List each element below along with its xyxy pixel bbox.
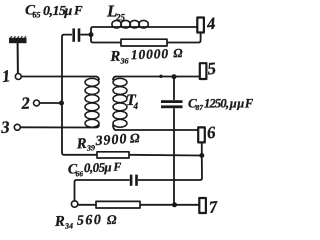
wire bottom rail to terminal 7 — [78, 204, 199, 206]
junction node C65 output — [89, 32, 94, 37]
junction node C87 tap — [172, 74, 177, 79]
junction node terminal 2 — [59, 101, 64, 106]
svg-text:2: 2 — [20, 93, 31, 113]
svg-text:25: 25 — [115, 13, 126, 23]
junction node under terminal 6 — [199, 153, 204, 158]
svg-text:36: 36 — [119, 56, 128, 65]
svg-text:Ω: Ω — [107, 212, 118, 227]
terminal 4 — [197, 18, 204, 33]
terminal 1 — [15, 74, 21, 80]
wire T4 secondary top to terminal 5 — [115, 76, 200, 78]
svg-text:μ: μ — [103, 159, 112, 174]
svg-text:34: 34 — [64, 221, 73, 230]
svg-text:0,05: 0,05 — [84, 160, 106, 176]
wire junction up to L25 — [91, 27, 112, 35]
label C66 0,05uF — [68, 159, 122, 178]
terminal 7 — [199, 198, 206, 213]
capacitor C66 — [130, 175, 138, 186]
capacitor C65 — [72, 28, 91, 41]
inductor L25 — [112, 20, 149, 28]
label C87 1250 uuF — [188, 96, 254, 113]
wire T4 secondary bottom to terminal 6 — [115, 129, 198, 131]
junction node on terminal 7 wire — [172, 202, 177, 207]
svg-text:5: 5 — [206, 59, 217, 79]
label R39 3900 ohm — [75, 130, 141, 153]
svg-text:F: F — [112, 160, 121, 174]
wire R39 to junction under terminal 6 — [129, 154, 202, 157]
open terminal (C66 return) — [71, 201, 77, 207]
wire terminal 3 to T4 primary bottom — [21, 126, 97, 128]
svg-text:1250: 1250 — [204, 97, 227, 111]
terminal 3 — [14, 124, 20, 130]
label T4 — [126, 92, 139, 111]
wire C66 left lead — [75, 180, 130, 202]
label C65 0,15uF — [25, 3, 83, 20]
transformer T4 primary winding — [85, 77, 99, 128]
wire terminal 6 stub down — [201, 143, 203, 156]
wire terminal 2 to bus — [40, 102, 62, 104]
label L25 — [106, 2, 126, 23]
wire L25 to terminal 4 — [149, 26, 197, 28]
svg-text:R: R — [54, 214, 66, 230]
wire C87 bottom to terminal 7 net — [173, 108, 175, 205]
svg-text:39: 39 — [86, 143, 96, 153]
transformer T4 secondary winding — [113, 77, 127, 131]
resistor R34 — [96, 201, 140, 208]
svg-text:4: 4 — [133, 101, 139, 111]
terminal 5 — [200, 63, 207, 79]
svg-text:R: R — [109, 49, 121, 65]
label R36 10000 ohm — [109, 45, 184, 66]
capacitor C87 — [161, 77, 183, 109]
svg-text:F: F — [73, 3, 83, 18]
svg-text:3900: 3900 — [94, 132, 128, 149]
svg-text:66: 66 — [75, 169, 83, 178]
wire junction down to R36 — [91, 35, 121, 43]
wire C66 right lead up to terminal 6 junction — [138, 158, 202, 180]
svg-text:Ω: Ω — [129, 130, 140, 146]
terminal 2 — [34, 100, 40, 106]
svg-text:1: 1 — [1, 66, 11, 86]
wire R36 to terminal 4 — [167, 33, 201, 43]
svg-text:R: R — [75, 136, 87, 153]
svg-text:7: 7 — [208, 197, 220, 217]
svg-text:10000: 10000 — [131, 46, 170, 62]
svg-text:3: 3 — [0, 117, 11, 137]
label R34 560 ohm — [54, 212, 118, 231]
resistor R36 — [121, 39, 167, 46]
wire left bus (C65 / terminal 2 / terminal 3 / R39) — [62, 35, 97, 155]
svg-text:87: 87 — [196, 103, 204, 112]
svg-text:μ: μ — [64, 4, 73, 19]
svg-text:,μμF: ,μμF — [225, 97, 254, 111]
ground (antenna chassis symbol) — [9, 36, 27, 73]
svg-text:4: 4 — [205, 14, 216, 34]
svg-text:Ω: Ω — [173, 46, 183, 60]
svg-text:6: 6 — [206, 123, 217, 143]
wire terminal 1 to T4 primary top — [22, 76, 97, 78]
terminal 6 — [198, 127, 205, 142]
junction node (small) on terminal 5 wire — [159, 75, 162, 78]
resistor R39 — [97, 152, 129, 158]
svg-text:0,15: 0,15 — [43, 4, 66, 19]
svg-text:65: 65 — [33, 11, 41, 20]
svg-text:560: 560 — [77, 213, 103, 229]
